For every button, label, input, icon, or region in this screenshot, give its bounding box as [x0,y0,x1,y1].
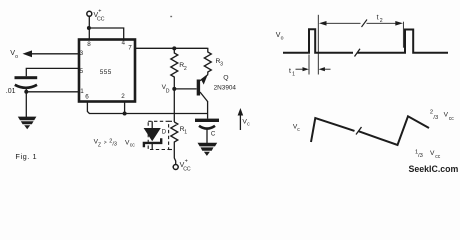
capacitor C top plate [195,119,219,122]
svg-text:cc: cc [130,143,136,149]
resistor R1 [171,122,178,165]
wire pin 1 to C1 node [26,91,79,93]
wire VD node to base [174,88,196,90]
wire pin 5 to capacitor C1 [26,68,79,76]
svg-text:D: D [166,89,170,95]
svg-text:7: 7 [128,44,132,51]
wire emitter to capacitor C [207,101,209,119]
svg-text:cc: cc [435,154,441,160]
svg-text:.01: .01 [6,88,16,95]
dimension t1 arrow left [296,68,308,70]
svg-text:V: V [430,150,435,157]
dimension t2 arrow left [319,21,327,26]
junction dot R2 top [172,46,176,50]
svg-text:8: 8 [87,41,91,48]
svg-text:Z: Z [98,142,101,148]
dimension t1 arrow right [319,67,325,71]
svg-text:o: o [281,36,284,42]
zener diode D dashed enclosure [148,121,168,149]
waveform VC ramp [311,118,355,142]
capacitor C curved plate [199,126,215,129]
svg-text:555: 555 [100,69,112,76]
svg-text:c: c [247,122,250,128]
junction dot C1/pin1 node [24,90,28,94]
break symbol t2 line [362,20,368,28]
junction dot pin 2 node [123,112,127,116]
wire pin 2 stub [124,102,126,114]
scan speck [170,16,172,17]
capacitor C1 (.01) top plate [15,76,38,79]
svg-text:CC: CC [183,166,191,172]
svg-text:2N3904: 2N3904 [214,85,237,92]
extension line pulse2 rising edge [402,22,404,48]
wire C1 node to ground [25,88,27,117]
svg-text:/3: /3 [433,115,438,121]
svg-text:1: 1 [80,88,84,95]
svg-text:t: t [289,68,291,75]
resistor R2 [171,48,178,87]
svg-text:+: + [185,159,188,165]
break symbol ramp [356,127,362,135]
svg-text:/3: /3 [112,142,117,148]
transistor Q1 2N3904 [197,80,200,96]
svg-text:SeekIC.com: SeekIC.com [409,164,459,174]
node VD junction dot [172,87,176,91]
svg-text:Q: Q [223,75,228,82]
output arrow Vo from pin 3 [31,53,79,55]
svg-text:>: > [104,140,107,146]
svg-text:2: 2 [121,93,125,100]
svg-text:2: 2 [184,66,187,72]
svg-text:3: 3 [80,50,84,57]
break symbol baseline [355,49,361,57]
wire VD node down to R1 [173,89,175,122]
extension line pulse1 rising edge [308,55,310,75]
svg-text:1: 1 [292,72,295,78]
svg-text:2: 2 [380,18,383,24]
svg-text:D: D [162,130,167,136]
zener diode D [151,121,153,128]
svg-text:Fig. 1: Fig. 1 [15,152,37,161]
svg-text:o: o [15,54,18,60]
svg-text:5: 5 [80,68,84,75]
junction dot Vcc node [87,26,91,30]
svg-text:C: C [211,130,216,137]
wire C to ground [206,129,208,143]
svg-text:4: 4 [122,39,126,46]
svg-text:6: 6 [85,93,89,100]
svg-text:3: 3 [220,61,223,67]
svg-text:/3: /3 [418,153,423,159]
svg-text:cc: cc [449,116,455,122]
dimension t2 arrow right [367,22,398,24]
svg-text:1: 1 [184,130,187,136]
wire Vcc terminal to pin 8 [88,16,90,39]
ground (left) [18,117,37,121]
wire pin 7 rail to R2 and R3 [135,47,208,49]
wire Vcc node to pin 4 [89,28,124,40]
resistor R3 [135,48,211,74]
capacitor C1 (.01) curved plate [15,85,37,88]
extension line pulse1 fall/t2 left [317,15,319,75]
ground (right) [198,143,218,147]
svg-text:CC: CC [97,17,105,23]
svg-text:+: + [98,9,101,15]
wire bottom rail pin 6 to emitter node [87,102,207,114]
power terminal V+CC (top) [87,11,92,16]
arrow VC (capacitor voltage) [239,113,241,130]
waveform Vo pulse train [283,29,353,53]
power terminal V+CC (bottom) [173,165,178,170]
IC U1 555 timer [79,40,135,102]
svg-text:t: t [377,15,379,22]
